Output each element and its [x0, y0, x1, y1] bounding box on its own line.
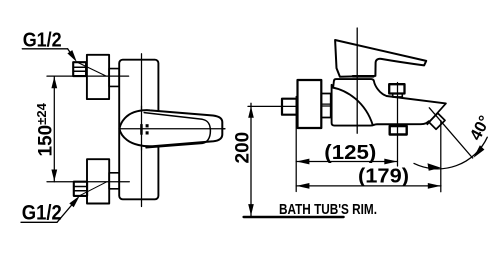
G1/2 bottom leader tail [80, 182, 107, 196]
side body vertical centerline [356, 28, 358, 133]
side escutcheon [298, 80, 322, 128]
179 dim arrow right [428, 183, 441, 189]
150 dim arrow top [51, 77, 57, 89]
side lever handle [335, 40, 426, 77]
200 dimension line [250, 103, 252, 215]
bottom inlet centerline [47, 181, 129, 183]
handle inner parting line [144, 113, 210, 148]
top connector [109, 69, 119, 87]
G1/2 bottom leader underline [21, 221, 57, 223]
svg-text:200: 200 [233, 132, 254, 164]
svg-text:40°: 40° [467, 113, 495, 143]
200 dim arrow top [248, 106, 254, 118]
side body left edge and bottom [332, 85, 429, 126]
wall extension line [295, 97, 297, 192]
handle hub thick base [353, 75, 374, 78]
diverter knob head (top) [389, 84, 404, 93]
side cartridge cap and spout top [333, 79, 446, 103]
side connector [321, 94, 330, 118]
svg-text:(179): (179) [358, 165, 409, 187]
handle center mark bar [140, 124, 143, 135]
spout end face [427, 104, 446, 125]
40 deg dimension arc [414, 137, 487, 169]
svg-text:BATH TUB'S RIM.: BATH TUB'S RIM. [279, 201, 377, 218]
handle dot lower [146, 131, 149, 134]
side inlet centerline [248, 105, 297, 107]
svg-text:G1/2: G1/2 [23, 29, 62, 51]
bottom escutcheon [87, 159, 109, 203]
svg-text:(125): (125) [324, 142, 376, 164]
125 dim arrow left [296, 159, 309, 165]
side inlet nut [282, 99, 297, 115]
svg-text:G1/2: G1/2 [22, 201, 62, 224]
G1/2 top leader line [68, 49, 74, 58]
handle outer outline (front view) [119, 110, 222, 146]
200 dim arrow bottom [248, 204, 254, 216]
top escutcheon [87, 55, 109, 99]
under-spout plug [390, 126, 407, 135]
side body dome curve [332, 87, 373, 125]
body centerline over handle [141, 106, 143, 150]
handle centerline over white [119, 128, 224, 130]
G1/2 bottom leader arrow [69, 196, 80, 208]
40 deg flow line [429, 108, 472, 158]
179 extension line (through aerator) [440, 121, 442, 192]
G1/2 top leader underline [22, 48, 67, 50]
svg-text:150±24: 150±24 [34, 102, 57, 156]
bottom connector [109, 173, 119, 189]
handle horizontal centerline [119, 128, 224, 130]
G1/2 top leader tail [77, 62, 106, 76]
179 dimension line [296, 185, 441, 187]
G1/2 top leader arrow [67, 50, 76, 62]
bottom inlet nut [74, 182, 87, 196]
179 dim arrow left [296, 183, 309, 189]
125 dim arrow right [384, 159, 397, 165]
125 dimension line [296, 161, 397, 163]
body vertical centerline [141, 54, 143, 207]
diverter knob neck [393, 94, 403, 97]
40 deg arc arrow right [473, 145, 484, 158]
handle dot upper [146, 124, 149, 127]
40 deg arc arrow left [428, 163, 441, 170]
aerator (rotated) [429, 113, 445, 129]
top inlet centerline [47, 75, 129, 77]
125 extension line (through diverter) [397, 83, 399, 167]
150 dimension line [53, 76, 55, 182]
bath tub rim line [244, 216, 344, 218]
top inlet nut [73, 62, 86, 76]
G1/2 bottom leader line [57, 204, 73, 223]
150 dim arrow bottom [51, 170, 57, 182]
faucet body (front view) [119, 60, 158, 200]
